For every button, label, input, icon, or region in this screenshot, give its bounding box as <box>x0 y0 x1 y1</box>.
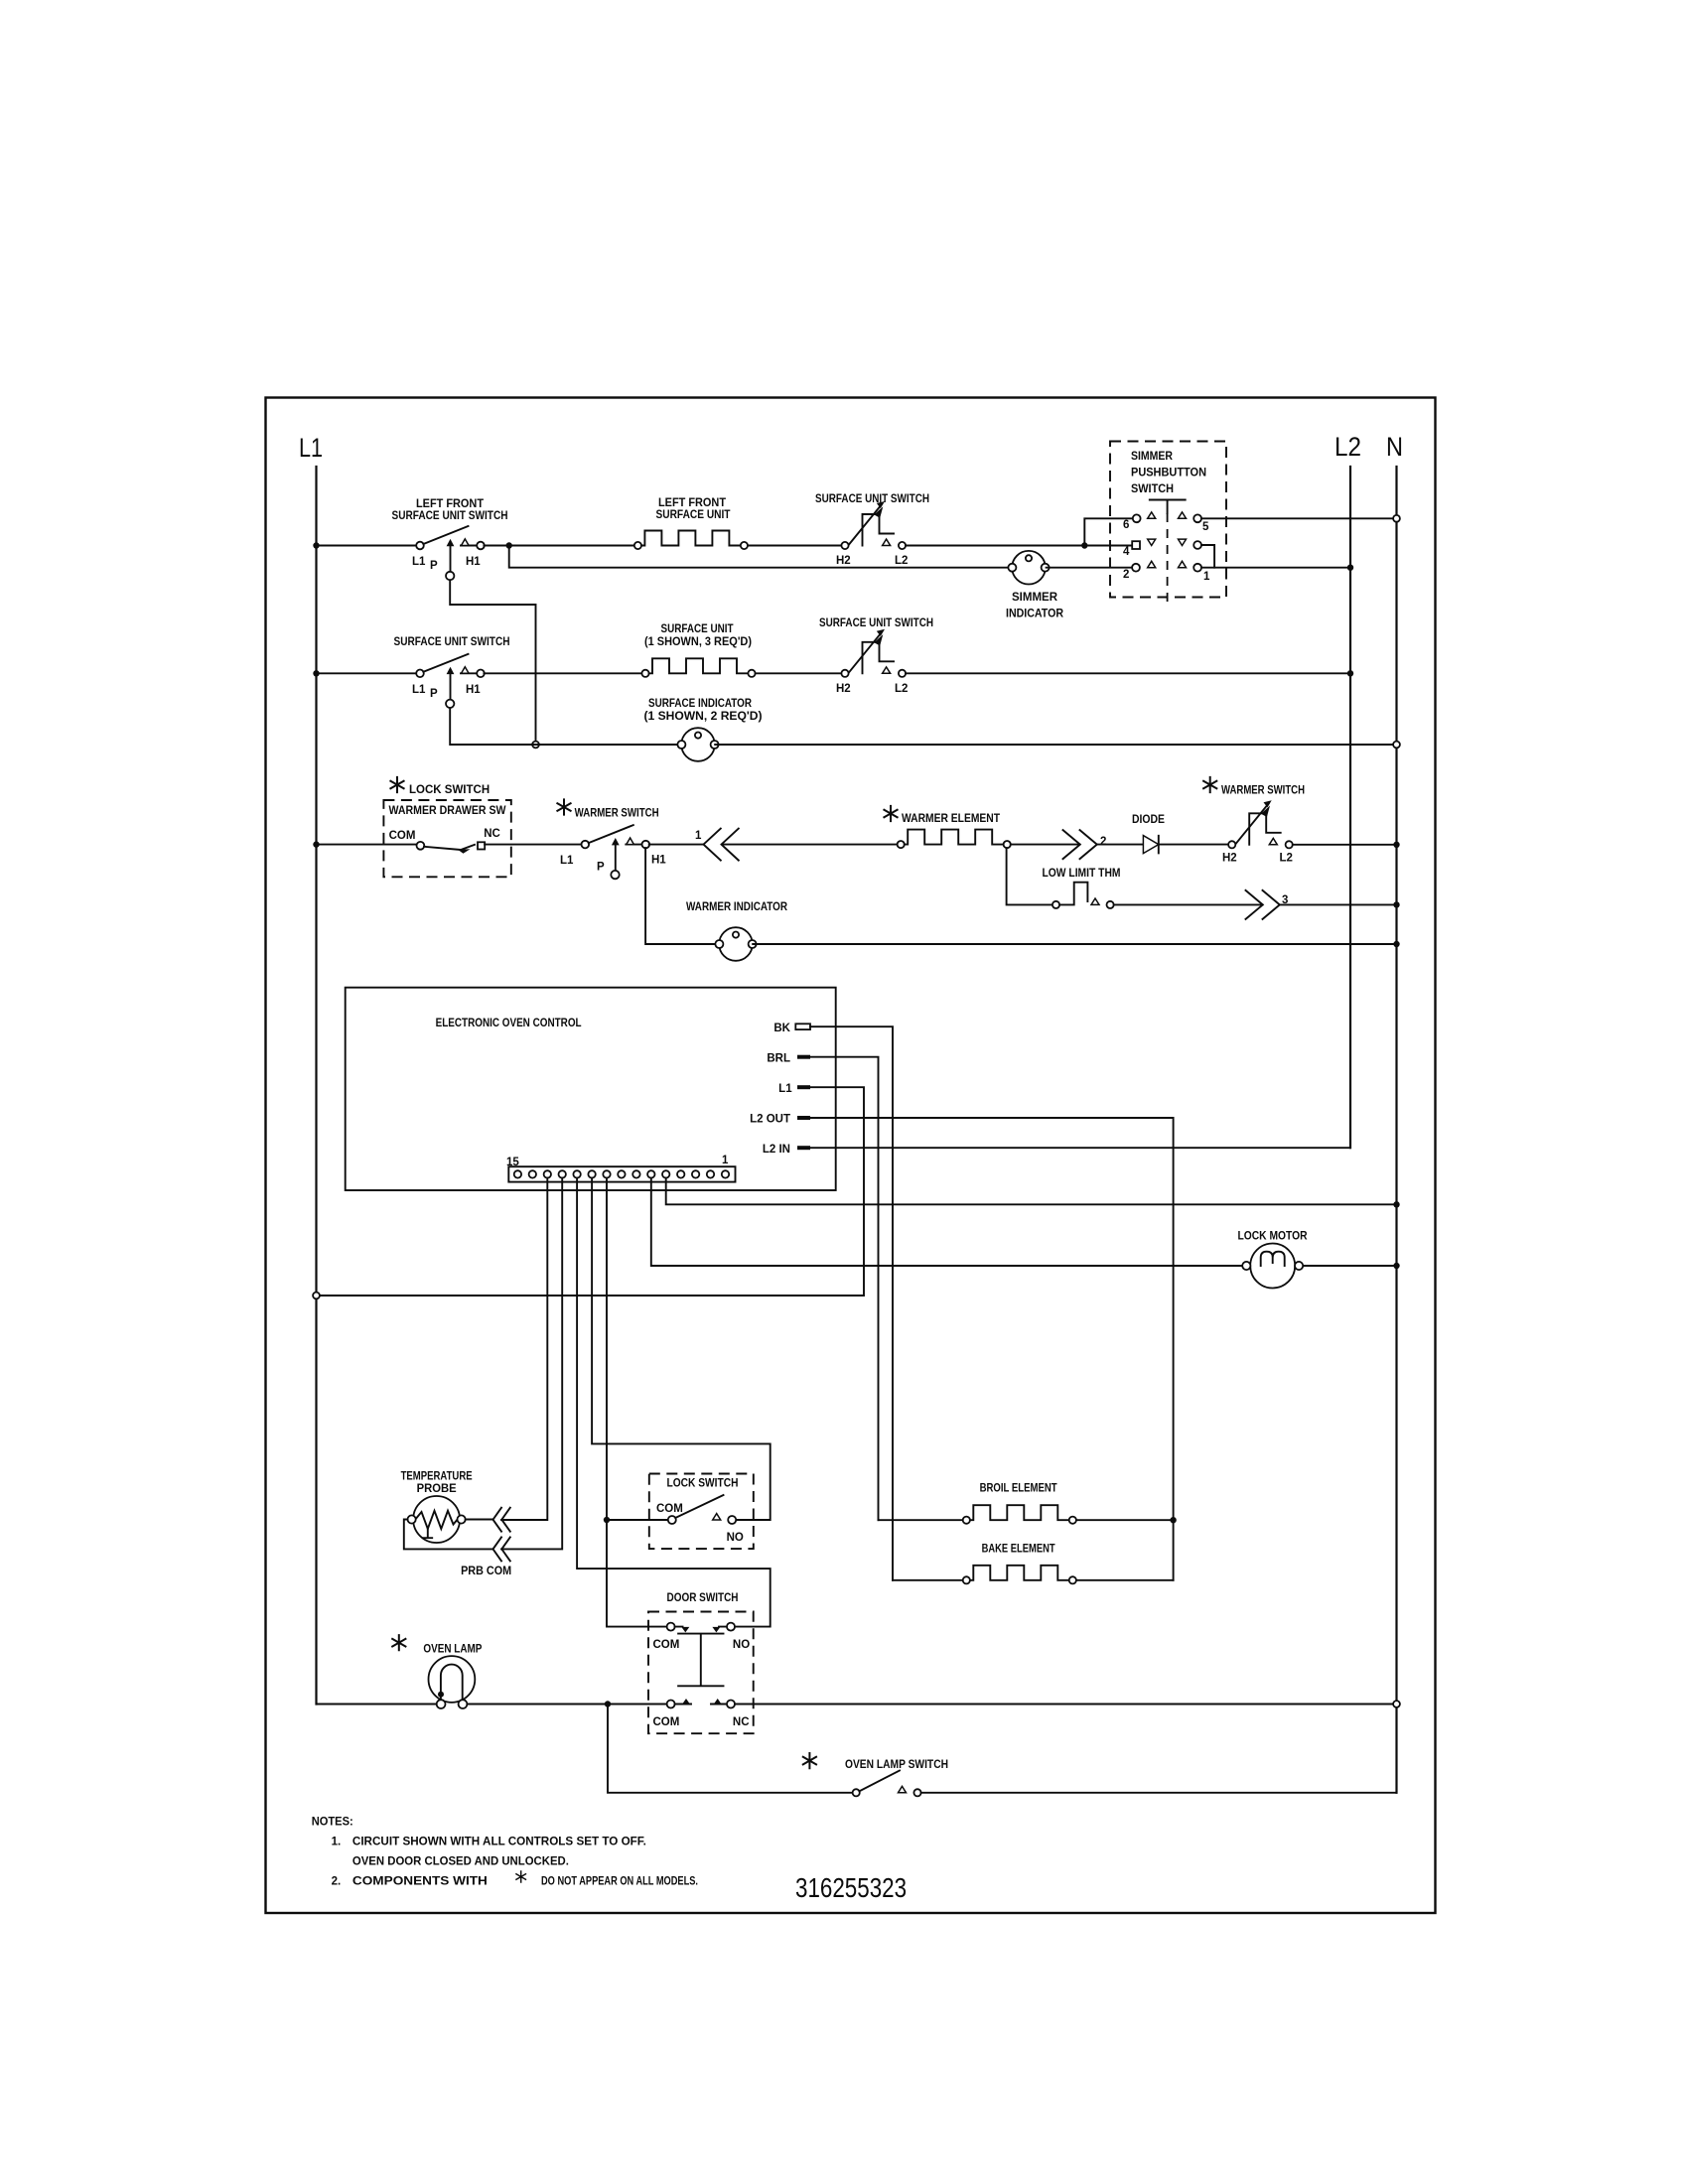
junction open at N (indicator row) <box>1393 742 1400 749</box>
svg-text:L1: L1 <box>412 684 426 696</box>
svg-text:1: 1 <box>695 830 702 842</box>
wire row3 from L1 to box <box>317 844 418 846</box>
pin L2 OUT stub <box>797 1116 810 1120</box>
wire row1 P branch down <box>450 581 535 745</box>
wire row2 from L1 to switch <box>317 672 417 674</box>
wire element junction down to thermostat <box>1007 848 1052 904</box>
svg-text:NC: NC <box>484 828 500 840</box>
wire indicator row to N <box>715 744 1393 746</box>
wire H1 to connector 1 <box>649 844 703 846</box>
svg-text:WARMER ELEMENT: WARMER ELEMENT <box>902 813 1000 825</box>
switch: OVEN LAMP SWITCH <box>853 1771 921 1797</box>
svg-text:NC: NC <box>733 1716 750 1728</box>
contact 1 <box>1179 561 1202 571</box>
contact 5 <box>1179 512 1202 522</box>
svg-text:L2: L2 <box>895 555 908 567</box>
motor: LOCK MOTOR <box>1242 1244 1303 1289</box>
label TEMPERATURE PROBE <box>401 1471 473 1496</box>
asterisk (warmer switch right) <box>1202 776 1217 793</box>
lamp: OVEN LAMP <box>429 1656 476 1708</box>
wire bake element to L2 OUT <box>1076 1579 1174 1581</box>
wire row1 to pushbutton <box>906 545 1132 547</box>
junction row3 on L1 <box>313 841 319 847</box>
L1 bus wire <box>315 467 317 1705</box>
svg-text:15: 15 <box>506 1157 519 1168</box>
pin labels COM NC (warmer drawer sw) <box>389 828 500 842</box>
svg-text:1: 1 <box>1203 571 1210 583</box>
svg-text:LEFT FRONT: LEFT FRONT <box>658 497 726 509</box>
pin labels COM NC (door switch lower) <box>653 1716 750 1728</box>
svg-text:CIRCUIT SHOWN WITH ALL CONTROL: CIRCUIT SHOWN WITH ALL CONTROLS SET TO O… <box>352 1837 646 1848</box>
note 1 line 1 <box>332 1837 646 1848</box>
heater: BAKE ELEMENT <box>963 1566 1076 1584</box>
svg-text:5: 5 <box>1202 521 1209 533</box>
pin labels H2 L2 (row1 right switch) <box>836 555 908 567</box>
door switch lower contacts <box>667 1699 735 1708</box>
wire contact5 to N <box>1201 517 1393 519</box>
pin L2 IN stub <box>797 1146 810 1150</box>
svg-text:PROBE: PROBE <box>417 1483 457 1495</box>
wire door NC to N <box>735 1704 1393 1706</box>
junction at N (pin11 wire) <box>1393 1201 1399 1207</box>
svg-text:L1: L1 <box>778 1083 792 1095</box>
svg-text:SURFACE UNIT SWITCH: SURFACE UNIT SWITCH <box>394 636 510 648</box>
heater: LEFT FRONT SURFACE UNIT <box>634 531 748 550</box>
wire BK to bake element <box>810 1026 893 1580</box>
wire diode to warmer switch right <box>1159 844 1228 846</box>
svg-text:COM: COM <box>389 830 416 842</box>
wire H1 to element (row2) <box>484 672 641 674</box>
contact 6 <box>1133 512 1156 522</box>
svg-text:(1 SHOWN, 2 REQ'D): (1 SHOWN, 2 REQ'D) <box>644 711 763 723</box>
switch: SURFACE UNIT SWITCH (row1 right) <box>841 501 906 549</box>
junction open at N (lamp row) <box>1393 1701 1400 1707</box>
junction broil at L2 OUT <box>1170 1517 1176 1523</box>
svg-text:L1: L1 <box>560 855 574 867</box>
junction row1 branch <box>1081 542 1087 548</box>
wire element to switch (row1) <box>748 545 841 547</box>
contact 3 <box>1179 539 1202 549</box>
connector chevron 1 <box>704 829 739 861</box>
junction open at N (row 6-5) <box>1393 515 1400 522</box>
svg-text:H2: H2 <box>836 555 851 567</box>
svg-text:H2: H2 <box>836 683 851 695</box>
connector chevron (probe bottom) <box>493 1537 510 1561</box>
pin labels L1 P H1 (warmer switch) <box>560 855 666 874</box>
svg-text:WARMER SWITCH: WARMER SWITCH <box>575 808 659 820</box>
svg-text:BROIL ELEMENT: BROIL ELEMENT <box>980 1483 1057 1495</box>
junction below H1 (row1) <box>506 542 512 548</box>
wire strip pin 10 to lock motor <box>651 1178 1245 1266</box>
pin BRL stub <box>797 1055 810 1059</box>
svg-text:WARMER SWITCH: WARMER SWITCH <box>1221 785 1305 797</box>
svg-text:LOCK SWITCH: LOCK SWITCH <box>667 1478 739 1490</box>
svg-text:L1: L1 <box>299 433 323 463</box>
note 2 <box>332 1870 698 1887</box>
wire BRL to broil element <box>879 1519 963 1521</box>
svg-text:L1: L1 <box>412 556 426 568</box>
pin labels H2 L2 (warmer switch right) <box>1222 853 1293 865</box>
wire branch up to contact 6 <box>1084 518 1132 545</box>
svg-text:PRB COM: PRB COM <box>461 1566 511 1577</box>
heater: SURFACE UNIT (1 SHOWN, 3 REQ'D) <box>641 658 755 677</box>
asterisk (warmer element) <box>884 805 899 822</box>
svg-text:SURFACE INDICATOR: SURFACE INDICATOR <box>648 698 753 710</box>
svg-text:PUSHBUTTON: PUSHBUTTON <box>1131 468 1206 479</box>
svg-text:SURFACE UNIT: SURFACE UNIT <box>661 623 734 635</box>
svg-text:WARMER DRAWER SW: WARMER DRAWER SW <box>389 805 506 817</box>
switch: WARMER SWITCH (right) <box>1228 800 1293 848</box>
contact 2 <box>1132 561 1156 571</box>
wire L2 OUT to elements <box>810 1118 1174 1580</box>
wire warmer indicator to N <box>753 943 1396 945</box>
svg-text:NO: NO <box>727 1532 744 1544</box>
junction at L2 (row2) <box>1347 670 1353 676</box>
svg-text:COM: COM <box>656 1503 683 1515</box>
label SIMMER INDICATOR <box>1006 592 1064 620</box>
svg-text:SURFACE UNIT SWITCH: SURFACE UNIT SWITCH <box>392 510 508 522</box>
asterisk (lock switch) <box>390 776 405 793</box>
wire indicator to contact 2 <box>1047 567 1133 569</box>
svg-text:OVEN DOOR CLOSED AND UNLOCKED.: OVEN DOOR CLOSED AND UNLOCKED. <box>352 1856 569 1868</box>
svg-text:SWITCH: SWITCH <box>1131 483 1174 495</box>
wire lock motor to N <box>1304 1265 1397 1267</box>
wire drawer sw to warmer switch <box>485 844 582 846</box>
wire lamp switch to N <box>921 1792 1397 1794</box>
wire probe to connector <box>466 1519 492 1521</box>
wire connector 3 to N <box>1280 903 1397 905</box>
contact 4 <box>1132 539 1156 549</box>
switch: SURFACE UNIT SWITCH (row2 right) <box>841 629 906 677</box>
door switch upper contacts <box>667 1623 735 1633</box>
svg-text:NOTES:: NOTES: <box>312 1817 353 1829</box>
wire probe return loop <box>404 1520 492 1550</box>
junction indicator row <box>532 742 539 749</box>
pin labels L1 P H1 (row1 switch) <box>412 556 481 572</box>
wire row1b lower branch <box>509 546 1012 568</box>
asterisk (oven lamp) <box>391 1634 406 1651</box>
wire broil element to L2 OUT <box>1076 1519 1174 1521</box>
wire connector 2 to diode <box>1097 844 1143 846</box>
sensor: TEMPERATURE PROBE <box>408 1496 466 1543</box>
svg-text:L2: L2 <box>1280 853 1293 865</box>
wire element to connector 2 <box>1011 844 1080 846</box>
svg-text:2: 2 <box>1100 836 1106 848</box>
svg-text:SURFACE UNIT SWITCH: SURFACE UNIT SWITCH <box>819 617 933 629</box>
wire contact1 to L2 <box>1201 567 1350 569</box>
lock switch contacts <box>668 1495 736 1524</box>
wire strip pin 7 down <box>607 1178 667 1627</box>
svg-text:DO NOT APPEAR ON ALL MODELS.: DO NOT APPEAR ON ALL MODELS. <box>541 1876 698 1888</box>
svg-text:LOCK SWITCH: LOCK SWITCH <box>409 784 490 796</box>
svg-text:2.: 2. <box>332 1876 342 1888</box>
controller: ELECTRONIC OVEN CONTROL box <box>346 988 836 1190</box>
svg-text:COM: COM <box>653 1716 680 1728</box>
label SURFACE UNIT (1 SHOWN, 3 REQ'D) <box>644 623 752 648</box>
thermostat: LOW LIMIT THM <box>1052 883 1114 908</box>
pin labels COM NO (lock switch) <box>656 1503 744 1544</box>
junction open at L1 (EOC L1 wire) <box>313 1293 320 1299</box>
svg-text:H1: H1 <box>651 855 666 867</box>
svg-text:COM: COM <box>653 1639 680 1651</box>
connector chevron 2 <box>1063 830 1097 859</box>
svg-text:(1 SHOWN, 3 REQ'D): (1 SHOWN, 3 REQ'D) <box>644 636 752 648</box>
svg-text:4: 4 <box>1123 546 1130 558</box>
svg-text:LOCK MOTOR: LOCK MOTOR <box>1238 1231 1309 1243</box>
svg-text:H1: H1 <box>466 556 481 568</box>
pin labels L1 P H1 (row2 switch) <box>412 684 481 700</box>
wire BK to bake element <box>893 1579 963 1581</box>
svg-text:DOOR SWITCH: DOOR SWITCH <box>667 1592 739 1604</box>
asterisk (oven lamp switch) <box>802 1752 817 1769</box>
wire warmer row to N <box>1293 844 1397 846</box>
switch: SURFACE UNIT SWITCH (row2 left) <box>416 654 485 708</box>
L2 bus wire <box>1349 467 1351 1148</box>
switch: WARMER SWITCH (left) <box>582 825 650 879</box>
lamp: WARMER INDICATOR <box>715 927 756 961</box>
lamp: SURFACE INDICATOR <box>677 728 718 761</box>
wire lamp to door switch <box>467 1704 666 1706</box>
label SIMMER PUSHBUTTON SWITCH <box>1131 451 1206 495</box>
wire element to switch (row2) <box>756 672 842 674</box>
junction row1 on L1 <box>313 542 319 548</box>
svg-text:LOW LIMIT THM: LOW LIMIT THM <box>1043 868 1121 880</box>
switch: LOCK SWITCH box <box>649 1474 754 1550</box>
connector chevron (probe top) <box>493 1508 510 1532</box>
label LEFT FRONT SURFACE UNIT SWITCH <box>392 498 508 522</box>
svg-text:L2 OUT: L2 OUT <box>750 1114 790 1126</box>
svg-text:TEMPERATURE: TEMPERATURE <box>401 1471 473 1483</box>
wire row2 P branch down <box>450 709 681 745</box>
svg-text:OVEN LAMP SWITCH: OVEN LAMP SWITCH <box>845 1759 948 1771</box>
pin L1 stub <box>797 1085 810 1089</box>
svg-text:ELECTRONIC OVEN CONTROL: ELECTRONIC OVEN CONTROL <box>436 1018 582 1029</box>
junction lock switch COM tap <box>604 1517 610 1523</box>
wire connector 1 to warmer element <box>724 844 898 846</box>
label SURFACE INDICATOR (1 SHOWN, 2 REQ'D) <box>644 698 763 723</box>
label LEFT FRONT SURFACE UNIT <box>656 497 731 521</box>
svg-text:BAKE ELEMENT: BAKE ELEMENT <box>982 1544 1055 1556</box>
wire thermostat to connector 3 <box>1114 903 1263 905</box>
svg-text:1: 1 <box>722 1155 729 1166</box>
svg-text:6: 6 <box>1123 519 1129 531</box>
switch: WARMER DRAWER SW box <box>383 800 510 877</box>
svg-text:P: P <box>430 560 438 572</box>
wire strip pin 5 down to door switch NO <box>577 1178 771 1627</box>
wire BRL to broil element <box>810 1057 879 1521</box>
asterisk (warmer switch left) <box>557 798 572 815</box>
svg-text:1.: 1. <box>332 1837 342 1848</box>
lamp: SIMMER INDICATOR <box>1008 551 1049 585</box>
svg-text:COMPONENTS WITH: COMPONENTS WITH <box>352 1876 488 1888</box>
svg-text:LEFT FRONT: LEFT FRONT <box>416 498 484 510</box>
pushbutton actuator bar <box>1150 500 1186 609</box>
svg-text:DIODE: DIODE <box>1132 814 1165 826</box>
wire strip pin 6 down to lock switch NO <box>592 1178 771 1520</box>
junction at L2 (row1b) <box>1347 565 1353 571</box>
svg-text:P: P <box>597 862 605 874</box>
svg-text:L2: L2 <box>895 683 908 695</box>
junction at N (thermostat row) <box>1393 901 1399 907</box>
wire L1 pin to L1 bus <box>320 1087 864 1296</box>
wire L2 IN to L2 bus <box>810 1147 1350 1149</box>
wire lamp row from L1 <box>317 1704 437 1706</box>
junction row2 on L1 <box>313 670 319 676</box>
wire lamp junction down to lamp switch <box>608 1705 853 1793</box>
svg-text:P: P <box>430 688 438 700</box>
svg-text:L2 IN: L2 IN <box>763 1144 790 1156</box>
warmer drawer switch contacts <box>417 842 486 854</box>
svg-text:H1: H1 <box>466 684 481 696</box>
connector chevron 3 <box>1246 890 1280 919</box>
svg-text:BK: BK <box>773 1023 790 1034</box>
svg-text:SIMMER: SIMMER <box>1131 451 1174 463</box>
svg-text:INDICATOR: INDICATOR <box>1006 609 1064 620</box>
svg-text:2: 2 <box>1123 569 1129 581</box>
svg-text:SIMMER: SIMMER <box>1012 592 1058 604</box>
wire strip pin 3 down to probe <box>501 1178 547 1520</box>
heater: BROIL ELEMENT <box>963 1505 1076 1524</box>
switch: DOOR SWITCH box <box>648 1612 754 1734</box>
terminal strip (EOC) <box>508 1166 735 1181</box>
junction at N (warmer row) <box>1393 842 1399 848</box>
wire lock COM tap <box>607 1519 668 1521</box>
svg-text:SURFACE UNIT SWITCH: SURFACE UNIT SWITCH <box>815 493 929 505</box>
pin BK stub <box>795 1024 810 1029</box>
diode <box>1143 836 1158 854</box>
wire H1 to element (row1) <box>484 545 633 547</box>
N bus wire <box>1395 467 1397 1793</box>
switch: LEFT FRONT SURFACE UNIT SWITCH <box>416 526 485 580</box>
heater: WARMER ELEMENT <box>898 830 1011 849</box>
wire strip pin 4 down to probe return <box>501 1178 562 1550</box>
wire row1 from L1 to switch <box>317 545 417 547</box>
svg-text:OVEN LAMP: OVEN LAMP <box>423 1644 482 1656</box>
wire contact3 down to row 2-1 <box>1201 545 1214 568</box>
junction at N (lock motor) <box>1393 1263 1399 1269</box>
svg-text:NO: NO <box>733 1639 750 1651</box>
door switch actuator <box>678 1634 723 1687</box>
svg-text:H2: H2 <box>1222 853 1237 865</box>
switch: SIMMER PUSHBUTTON SWITCH box <box>1110 442 1226 598</box>
pin labels H2 L2 (row2 right switch) <box>836 683 908 695</box>
wire warmer indicator branch <box>645 848 718 944</box>
svg-text:N: N <box>1386 432 1403 462</box>
wire strip pin 11 to N <box>666 1178 1397 1205</box>
svg-text:BRL: BRL <box>767 1053 790 1065</box>
svg-text:WARMER INDICATOR: WARMER INDICATOR <box>686 901 788 913</box>
junction at N (warmer indicator row) <box>1393 941 1399 947</box>
pin labels COM NO (door switch upper) <box>653 1639 751 1651</box>
svg-text:SURFACE UNIT: SURFACE UNIT <box>656 509 731 521</box>
svg-text:L2: L2 <box>1334 432 1361 462</box>
junction lamp line <box>605 1701 611 1706</box>
wire row2 to L2 bus <box>906 672 1350 674</box>
svg-text:316255323: 316255323 <box>795 1873 907 1904</box>
